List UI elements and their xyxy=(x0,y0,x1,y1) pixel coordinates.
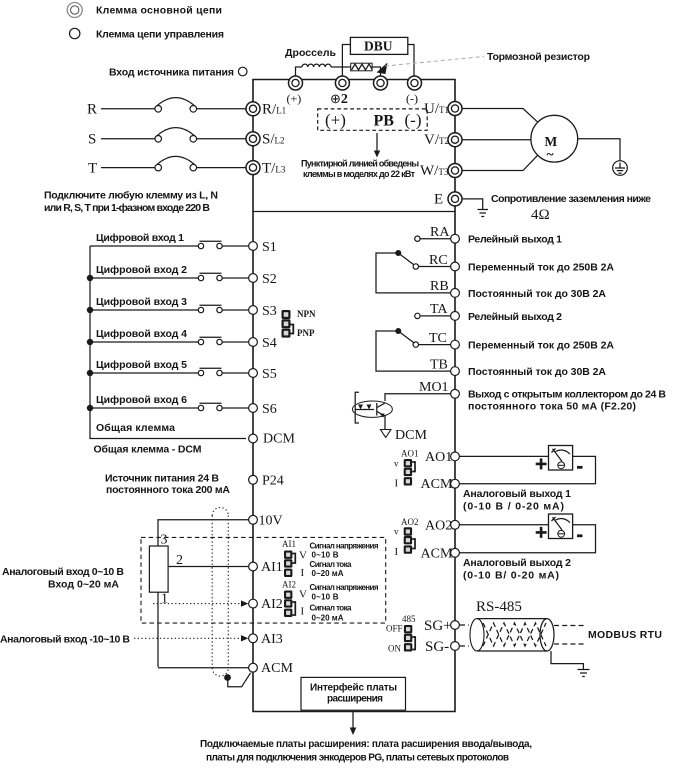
terminal +2 top xyxy=(330,76,349,107)
wire S row xyxy=(101,138,155,140)
wire: internal separator xyxy=(253,211,455,213)
dashed box: PB terminals group xyxy=(318,109,428,130)
svg-text:RA: RA xyxy=(430,225,450,240)
svg-text:Релейный выход 1: Релейный выход 1 xyxy=(468,234,562,246)
svg-text:Дроссель: Дроссель xyxy=(285,47,337,59)
terminal S3 xyxy=(249,304,277,319)
terminal AI3 xyxy=(249,632,283,647)
svg-text:0~10 В: 0~10 В xyxy=(312,551,339,560)
svg-text:Постоянный ток до 30В 2А: Постоянный ток до 30В 2А xyxy=(468,288,606,300)
dashed stubs SG to cable xyxy=(460,625,469,646)
svg-text:10V: 10V xyxy=(259,513,283,528)
DCM ground triangle xyxy=(381,428,428,443)
svg-text:Переменный ток до 250В 2А: Переменный ток до 250В 2А xyxy=(468,262,614,274)
potentiometer xyxy=(149,533,183,607)
svg-text:AO2: AO2 xyxy=(401,517,419,527)
legend main-circuit terminal symbol xyxy=(67,3,82,18)
svg-text:I: I xyxy=(301,567,305,579)
svg-text:0~10 В: 0~10 В xyxy=(312,593,339,602)
svg-text:Переменный ток до 250В 2А: Переменный ток до 250В 2А xyxy=(468,340,614,352)
terminal RA xyxy=(430,225,459,243)
svg-text:V: V xyxy=(299,550,307,562)
brake resistor element xyxy=(351,63,373,71)
svg-text:S: S xyxy=(88,132,96,148)
svg-text:AI1: AI1 xyxy=(282,539,296,549)
svg-text:4Ω: 4Ω xyxy=(531,207,550,223)
terminal SG+ xyxy=(424,618,459,634)
wire S1 row xyxy=(90,245,249,247)
svg-text:Вход источника питания: Вход источника питания xyxy=(109,67,234,79)
wire MO1 row xyxy=(385,394,451,401)
svg-text:Подключите любую клемму из L,: Подключите любую клемму из L, N xyxy=(44,190,218,202)
wire S5 row xyxy=(90,372,249,374)
meter AO1 xyxy=(536,446,583,471)
node: bus junction S6 xyxy=(87,405,93,411)
inductor (choke) xyxy=(296,64,343,76)
terminal T/L3 xyxy=(246,161,286,177)
svg-text:AI3: AI3 xyxy=(261,632,283,647)
svg-text:AO2: AO2 xyxy=(425,518,452,533)
wire AI2 dotted with arrow xyxy=(153,603,242,605)
svg-text:Цифровой вход 4: Цифровой вход 4 xyxy=(96,328,187,340)
terminal TC xyxy=(429,331,459,349)
svg-text:(+): (+) xyxy=(287,92,302,106)
wire AO2 loop xyxy=(459,525,595,553)
svg-text:(-): (-) xyxy=(405,111,422,130)
svg-text:ACM: ACM xyxy=(421,477,453,492)
wire RC row xyxy=(418,266,450,268)
svg-text:T: T xyxy=(88,161,97,177)
svg-text:Тормозной резистор: Тормозной резистор xyxy=(487,51,590,63)
svg-text:Релейный выход 2: Релейный выход 2 xyxy=(468,311,562,323)
wire S4 row xyxy=(90,341,249,343)
motor M xyxy=(531,115,578,162)
NPN/PNP jumper block xyxy=(282,309,316,338)
svg-text:PB: PB xyxy=(374,113,395,130)
svg-text:TA: TA xyxy=(430,302,448,317)
svg-text:ACM: ACM xyxy=(261,661,293,676)
svg-text:Клемма цепи управления: Клемма цепи управления xyxy=(96,29,224,41)
contact RA xyxy=(415,236,420,241)
svg-text:S4: S4 xyxy=(262,336,277,351)
svg-text:Клемма основной цепи: Клемма основной цепи xyxy=(96,5,222,17)
terminal (-) top xyxy=(406,76,422,106)
wire motor to PE xyxy=(578,139,620,161)
svg-text:TB: TB xyxy=(430,358,448,373)
svg-text:клеммы в моделях до 22 кВт: клеммы в моделях до 22 кВт xyxy=(303,169,416,179)
wire S3 row xyxy=(90,309,249,311)
wire V to motor xyxy=(462,139,531,141)
wire relay2 common to TB xyxy=(376,331,451,371)
wire TC row xyxy=(418,344,450,346)
svg-text:Аналоговый вход -10~10 В: Аналоговый вход -10~10 В xyxy=(0,634,130,646)
wire R row xyxy=(101,108,155,110)
terminal ACM xyxy=(249,661,294,676)
svg-text:⊕2: ⊕2 xyxy=(330,91,348,107)
node relay 2 xyxy=(395,328,401,334)
svg-text:S5: S5 xyxy=(262,367,277,382)
svg-text:Цифровой вход 1: Цифровой вход 1 xyxy=(96,232,184,244)
wire S6 row xyxy=(90,407,249,409)
terminal S2 xyxy=(249,272,277,287)
svg-text:(+): (+) xyxy=(325,111,346,130)
AI2 jumper block xyxy=(282,580,307,618)
node: bus junction S3 xyxy=(87,307,93,313)
contact TA xyxy=(415,313,420,318)
wire ACM row xyxy=(158,667,249,669)
svg-text:PNP: PNP xyxy=(297,328,315,338)
optocoupler U1 xyxy=(352,392,392,429)
svg-text:Аналоговый вход 0~10 В: Аналоговый вход 0~10 В xyxy=(2,566,124,578)
node relay 1 xyxy=(395,250,401,256)
switch S5 xyxy=(198,368,222,375)
svg-text:DCM: DCM xyxy=(263,432,295,447)
svg-text:Источник питания 24 В: Источник питания 24 В xyxy=(105,473,219,485)
svg-text:v: v xyxy=(394,459,399,469)
wire: inverter outline xyxy=(253,80,455,712)
wire relay1 common to RB xyxy=(376,253,451,293)
svg-text:S3: S3 xyxy=(262,304,277,319)
shielded cable capsule (dotted) xyxy=(212,507,228,676)
svg-text:RB: RB xyxy=(430,279,449,294)
contact RC xyxy=(413,264,418,269)
wire pot pin1 down xyxy=(157,592,159,667)
svg-text:AO1: AO1 xyxy=(425,450,452,465)
svg-text:расширения: расширения xyxy=(327,694,383,705)
svg-text:E: E xyxy=(434,192,443,208)
wire AO1 loop xyxy=(459,456,595,483)
wire cable shield to ground xyxy=(551,651,583,670)
wire TA row xyxy=(420,315,451,317)
terminal AI1 xyxy=(249,560,283,575)
svg-text:V: V xyxy=(299,589,307,601)
svg-text:Пунктирной линией обведены: Пунктирной линией обведены xyxy=(301,159,419,169)
relay 1 arm xyxy=(398,253,414,265)
switch S3 xyxy=(198,305,222,312)
svg-text:2: 2 xyxy=(176,553,183,568)
svg-text:S2: S2 xyxy=(262,272,277,287)
AO2 jumper block xyxy=(394,517,419,558)
power input legend circle xyxy=(238,67,247,76)
svg-text:S6: S6 xyxy=(262,402,277,417)
svg-text:Общая клемма: Общая клемма xyxy=(96,422,175,434)
svg-text:DBU: DBU xyxy=(364,39,393,54)
svg-text:485: 485 xyxy=(402,614,416,624)
terminal W/T3 xyxy=(420,163,462,179)
svg-text:Сигнал напряжения: Сигнал напряжения xyxy=(310,583,379,592)
svg-text:Аналоговый выход 1: Аналоговый выход 1 xyxy=(463,488,571,500)
svg-text:AI2: AI2 xyxy=(282,580,296,590)
svg-text:R: R xyxy=(87,102,97,118)
arrow from interface box xyxy=(352,712,354,730)
terminal S5 xyxy=(249,367,277,382)
terminal S/L2 xyxy=(246,132,285,148)
terminal V/T2 xyxy=(424,132,462,148)
terminal 10V xyxy=(249,513,283,528)
node: bus junction S4 xyxy=(87,339,93,345)
breaker contact S xyxy=(155,128,197,143)
svg-text:Подключаемые платы расширения:: Подключаемые платы расширения: плата рас… xyxy=(200,739,532,750)
meter AO2 xyxy=(536,514,583,539)
svg-text:AI1: AI1 xyxy=(261,560,283,575)
brake resistor DBU unit xyxy=(342,37,414,76)
terminal ACM (AO1) xyxy=(421,477,460,492)
dashed box: analog inputs xyxy=(141,537,386,623)
svg-text:AI2: AI2 xyxy=(261,597,283,612)
svg-text:платы для подключения энкодеро: платы для подключения энкодеров PG, плат… xyxy=(206,753,509,764)
switch S2 xyxy=(198,273,222,280)
wire AI3 dotted with arrow xyxy=(134,637,242,639)
legend control-circuit terminal symbol xyxy=(70,28,80,38)
terminal MO1 xyxy=(419,380,459,398)
note: AI1 signal types xyxy=(310,542,379,579)
contact TC xyxy=(413,342,418,347)
svg-text:Сопротивление заземления ниже: Сопротивление заземления ниже xyxy=(491,193,651,205)
svg-text:RC: RC xyxy=(429,253,448,268)
svg-text:SG+: SG+ xyxy=(424,618,452,634)
svg-text:OFF: OFF xyxy=(386,624,403,634)
terminal TA xyxy=(430,302,459,320)
terminal AO1 xyxy=(425,450,459,465)
breaker contact R xyxy=(155,98,197,113)
terminal AO2 xyxy=(425,518,459,533)
wire: common bus xyxy=(90,246,246,439)
svg-text:(-): (-) xyxy=(406,92,418,106)
svg-text:MO1: MO1 xyxy=(419,380,449,395)
svg-text:Сигнал тока: Сигнал тока xyxy=(310,560,353,569)
wire RA row xyxy=(420,238,451,240)
ground symbol E xyxy=(478,210,489,217)
svg-text:Сигнал напряжения: Сигнал напряжения xyxy=(310,542,379,551)
svg-text:Вход 0~20 мА: Вход 0~20 мА xyxy=(48,579,119,591)
wire E to ground xyxy=(462,199,483,210)
wire T row xyxy=(101,167,155,169)
svg-text:Выход с открытым коллектором д: Выход с открытым коллектором до 24 В xyxy=(468,389,666,401)
terminal ACM (AO2) xyxy=(421,546,460,561)
wire: choke to brake resistor xyxy=(342,67,380,76)
AO1 jumper block xyxy=(394,449,419,490)
terminal S1 xyxy=(249,240,277,255)
arrow below PB box xyxy=(376,133,378,152)
svg-text:S1: S1 xyxy=(262,240,277,255)
RS-485 shielded cable xyxy=(470,619,554,651)
svg-text:постоянного тока 50 мА (F2.20): постоянного тока 50 мА (F2.20) xyxy=(468,401,636,413)
terminal PB top xyxy=(374,76,388,90)
wire 10V to potentiometer xyxy=(158,520,249,546)
svg-text:3: 3 xyxy=(161,533,168,548)
svg-text:0~20 мА: 0~20 мА xyxy=(312,569,344,578)
terminal AI2 xyxy=(249,597,283,612)
svg-text:~: ~ xyxy=(547,147,554,162)
svg-text:Постоянный ток до 30В 2А: Постоянный ток до 30В 2А xyxy=(468,366,606,378)
svg-text:I: I xyxy=(395,478,399,490)
AI1 jumper block xyxy=(282,539,307,579)
svg-text:Сигнал тока: Сигнал тока xyxy=(310,604,353,613)
svg-text:Цифровой вход 6: Цифровой вход 6 xyxy=(96,394,187,406)
svg-text:DCM: DCM xyxy=(395,428,427,443)
terminal U/T1 xyxy=(424,101,462,117)
leader line (gray dashed) xyxy=(385,57,484,67)
svg-text:или R, S, T при 1-фазном входе: или R, S, T при 1-фазном входе 220 В xyxy=(44,202,210,214)
breaker contact T xyxy=(155,156,197,171)
wire U to motor xyxy=(462,109,538,123)
svg-text:0~20 мА: 0~20 мА xyxy=(312,614,344,623)
svg-text:ON: ON xyxy=(388,644,401,654)
svg-text:v: v xyxy=(394,527,399,537)
svg-text:NPN: NPN xyxy=(297,309,316,319)
terminal P24 xyxy=(249,473,284,488)
svg-text:Общая клемма - DCM: Общая клемма - DCM xyxy=(94,444,202,456)
wire shield drain to ACM xyxy=(228,673,251,687)
svg-text:постоянного тока 200 мА: постоянного тока 200 мА xyxy=(106,484,230,496)
wire pot wiper to AI1 xyxy=(168,566,248,568)
switch S1 xyxy=(198,241,222,248)
switch S4 xyxy=(198,337,222,344)
interface box xyxy=(301,677,406,710)
dashed leads to MODBUS xyxy=(554,626,584,645)
terminal DCM xyxy=(249,432,296,447)
svg-text:TC: TC xyxy=(429,331,447,346)
svg-text:RS-485: RS-485 xyxy=(476,599,522,615)
terminal S6 xyxy=(249,402,277,417)
ground symbol RS-485 xyxy=(578,670,590,677)
svg-text:AO1: AO1 xyxy=(401,449,419,459)
terminal SG- xyxy=(425,639,459,655)
svg-text:Цифровой вход 2: Цифровой вход 2 xyxy=(96,264,187,276)
PE ground symbol xyxy=(613,161,628,176)
arrow pointing to brake resistor xyxy=(377,63,388,75)
terminal E xyxy=(434,192,462,208)
svg-text:Цифровой вход 5: Цифровой вход 5 xyxy=(96,359,187,371)
svg-text:(0-10 В/ 0-20 мА): (0-10 В/ 0-20 мА) xyxy=(463,570,559,582)
terminal (+) top xyxy=(287,76,303,106)
svg-text:Цифровой вход 3: Цифровой вход 3 xyxy=(96,296,187,308)
node: bus junction S2 xyxy=(87,275,93,281)
switch S6 xyxy=(198,403,222,410)
wire W to motor xyxy=(462,155,538,170)
shield drain node xyxy=(224,674,231,681)
terminal RC xyxy=(429,253,459,271)
svg-text:SG-: SG- xyxy=(425,639,449,655)
svg-text:I: I xyxy=(301,606,305,618)
svg-text:Аналоговый выход 2: Аналоговый выход 2 xyxy=(463,557,571,569)
terminal S4 xyxy=(249,336,277,351)
wire S2 row xyxy=(90,277,249,279)
svg-text:(0-10 В / 0-20 мА): (0-10 В / 0-20 мА) xyxy=(463,501,564,513)
svg-text:ACM: ACM xyxy=(421,546,453,561)
terminal R/L1 xyxy=(246,102,286,118)
svg-text:1: 1 xyxy=(161,592,168,607)
relay 2 arm xyxy=(398,331,414,343)
svg-text:I: I xyxy=(395,546,399,558)
terminal TB xyxy=(430,358,459,376)
svg-text:Интерфейс платы: Интерфейс платы xyxy=(310,682,397,694)
svg-text:P24: P24 xyxy=(262,473,284,488)
485 jumper block xyxy=(386,614,416,654)
svg-text:MODBUS RTU: MODBUS RTU xyxy=(588,629,662,641)
node: bus junction S5 xyxy=(87,370,93,376)
note: AI2 signal types xyxy=(310,583,379,623)
terminal RB xyxy=(430,279,459,297)
